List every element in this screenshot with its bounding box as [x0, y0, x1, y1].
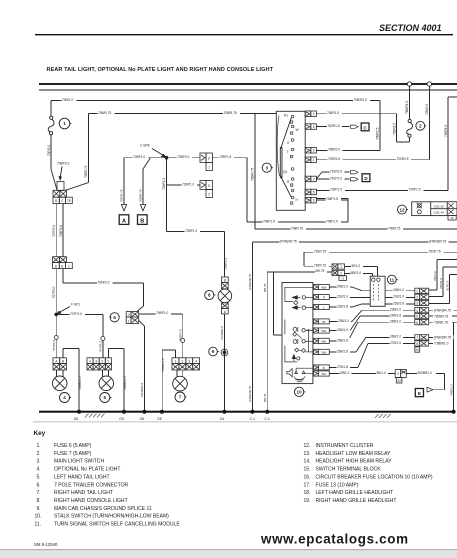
svg-text:726P1.5: 726P1.5 — [409, 188, 421, 192]
svg-text:11: 11 — [389, 277, 394, 282]
svg-text:72BP1.0: 72BP1.0 — [185, 229, 197, 233]
svg-text:15/3BR2.5: 15/3BR2.5 — [140, 382, 144, 397]
svg-text:70BP2.0: 70BP2.0 — [57, 162, 69, 166]
svg-text:14.: 14. — [304, 459, 311, 465]
svg-text:C-1: C-1 — [250, 417, 256, 421]
svg-text:BR.75: BR.75 — [316, 269, 325, 273]
svg-text:25B/1.8: 25B/1.8 — [337, 338, 348, 342]
svg-text:FUSE 13 (10 AMP): FUSE 13 (10 AMP) — [316, 482, 359, 488]
svg-text:G4: G4 — [220, 417, 225, 421]
svg-text:G5: G5 — [119, 417, 124, 421]
svg-text:www.epcatalogs.com: www.epcatalogs.com — [260, 532, 408, 547]
svg-text:9: 9 — [212, 349, 215, 354]
svg-text:16.: 16. — [304, 474, 311, 480]
svg-text:761R2.0: 761R2.0 — [330, 169, 342, 173]
svg-text:7.: 7. — [37, 490, 41, 496]
svg-text:B: B — [140, 219, 144, 225]
svg-text:26B/1.0: 26B/1.0 — [390, 335, 401, 339]
svg-text:900BR1.0: 900BR1.0 — [418, 371, 432, 375]
svg-text:Key: Key — [34, 430, 46, 437]
svg-text:1: 1 — [340, 265, 342, 269]
svg-text:31b: 31b — [321, 372, 326, 376]
svg-text:E: E — [418, 391, 421, 396]
svg-text:72BP1.5: 72BP1.5 — [444, 125, 448, 137]
svg-text:SWITCH TERMINAL BLOCK: SWITCH TERMINAL BLOCK — [316, 467, 382, 473]
svg-text:TURN SIGNAL SWITCH SELF CANCEL: TURN SIGNAL SWITCH SELF CANCELLING MODUL… — [54, 522, 180, 528]
svg-text:RIGHT HAND TAIL LIGHT: RIGHT HAND TAIL LIGHT — [54, 490, 113, 496]
svg-text:70BP1.0: 70BP1.0 — [156, 311, 168, 315]
svg-text:3CP1.0: 3CP1.0 — [445, 281, 449, 291]
svg-text:1: 1 — [107, 359, 109, 363]
svg-text:5I: 5I — [323, 366, 326, 370]
svg-text:76P#1.0: 76P#1.0 — [439, 277, 443, 289]
svg-text:(FNR)9R.75: (FNR)9R.75 — [280, 239, 297, 243]
svg-text:4: 4 — [195, 359, 197, 363]
svg-text:78: 78 — [67, 199, 71, 203]
svg-text:706P2.0: 706P2.0 — [59, 225, 63, 237]
svg-text:708R.75: 708R.75 — [291, 226, 303, 230]
svg-text:6.: 6. — [37, 482, 41, 488]
svg-text:70BR.75: 70BR.75 — [84, 165, 88, 178]
svg-text:707P1.0: 707P1.0 — [99, 340, 103, 352]
svg-text:27B/1.0: 27B/1.0 — [390, 341, 401, 345]
svg-text:7: 7 — [179, 395, 182, 400]
svg-text:5: 5 — [104, 395, 107, 400]
svg-text:2: 2 — [208, 193, 210, 197]
svg-text:72B9R.75: 72B9R.75 — [434, 314, 448, 318]
svg-text:3.: 3. — [37, 459, 41, 465]
svg-text:12: 12 — [399, 207, 405, 212]
svg-text:72B9K.75: 72B9K.75 — [434, 321, 448, 325]
svg-text:LEFT HAND GRILLE HEADLIGHT: LEFT HAND GRILLE HEADLIGHT — [316, 490, 394, 496]
svg-text:5: 5 — [313, 149, 315, 153]
svg-text:708P1.5: 708P1.5 — [326, 219, 338, 223]
svg-text:0: 0 — [128, 313, 130, 317]
svg-text:(FNR)9R.75: (FNR)9R.75 — [434, 336, 451, 340]
svg-text:Q2: Q2 — [283, 170, 287, 174]
svg-text:71: 71 — [341, 277, 345, 281]
svg-text:(FNR)9R.75: (FNR)9R.75 — [248, 385, 252, 402]
svg-text:G5: G5 — [157, 417, 162, 421]
svg-text:INSTRUMENT CLUSTER: INSTRUMENT CLUSTER — [316, 443, 374, 449]
svg-text:7 POLE TRAILER CONNECTOR: 7 POLE TRAILER CONNECTOR — [54, 482, 128, 488]
svg-text:70B/R.75: 70B/R.75 — [224, 111, 238, 115]
svg-text:25B/1.0: 25B/1.0 — [390, 320, 401, 324]
svg-text:1: 1 — [416, 290, 418, 294]
svg-text:C-SP8: C-SP8 — [140, 144, 150, 148]
svg-text:24B/1.8: 24B/1.8 — [390, 314, 401, 318]
svg-text:708P1.5: 708P1.5 — [326, 197, 338, 201]
svg-text:707P2.0: 707P2.0 — [52, 225, 56, 237]
svg-text:G5: G5 — [74, 417, 79, 421]
svg-text:11.: 11. — [35, 522, 42, 528]
svg-text:72BP2.0: 72BP2.0 — [177, 155, 189, 159]
svg-text:56b: 56b — [321, 340, 326, 344]
svg-text:72BP1.0: 72BP1.0 — [182, 182, 194, 186]
svg-text:766R2.0: 766R2.0 — [328, 148, 340, 152]
svg-text:70P1.0: 70P1.0 — [433, 271, 437, 281]
svg-text:70BBR1.0: 70BBR1.0 — [78, 376, 82, 390]
svg-text:1: 1 — [313, 158, 315, 162]
svg-text:BR.75: BR.75 — [263, 283, 267, 292]
svg-text:70BR2.5: 70BR2.5 — [376, 127, 380, 140]
svg-text:726P1.5: 726P1.5 — [330, 188, 342, 192]
svg-text:4: 4 — [89, 359, 91, 363]
svg-text:761P2.0: 761P2.0 — [330, 176, 342, 180]
svg-text:32: 32 — [397, 379, 401, 383]
svg-text:CIRCUIT BREAKER FUSE LOCATION: CIRCUIT BREAKER FUSE LOCATION 10 (10 AMP… — [316, 474, 433, 480]
svg-text:6: 6 — [313, 125, 315, 129]
svg-text:56a: 56a — [321, 329, 326, 333]
svg-text:72BP1.0: 72BP1.0 — [133, 155, 145, 159]
svg-text:(FNR)9R.75: (FNR)9R.75 — [434, 309, 451, 313]
svg-text:C-1: C-1 — [264, 417, 270, 421]
svg-text:E: E — [61, 264, 63, 268]
svg-text:4.: 4. — [37, 467, 41, 473]
svg-text:3: 3 — [95, 359, 97, 363]
svg-text:(FNR)9R.75: (FNR)9R.75 — [429, 239, 446, 243]
svg-text:2: 2 — [416, 296, 418, 300]
svg-text:2: 2 — [101, 359, 103, 363]
svg-text:G5: G5 — [140, 417, 145, 421]
svg-text:4: 4 — [63, 395, 66, 400]
svg-text:22B/1.8: 22B/1.8 — [337, 305, 348, 309]
svg-text:1: 1 — [128, 319, 130, 323]
svg-text:5.: 5. — [37, 474, 41, 480]
svg-text:760R1.5: 760R1.5 — [328, 124, 340, 128]
svg-text:762R.75: 762R.75 — [314, 264, 326, 268]
svg-text:B: B — [55, 199, 57, 203]
svg-text:21B/1.0: 21B/1.0 — [393, 295, 404, 299]
svg-text:706P2.0: 706P2.0 — [98, 280, 110, 284]
svg-text:2: 2 — [313, 177, 315, 181]
svg-text:720R2.5: 720R2.5 — [397, 157, 409, 161]
svg-text:9/B1.0: 9/B1.0 — [340, 371, 349, 375]
svg-text:1: 1 — [175, 359, 177, 363]
svg-text:6: 6 — [416, 321, 418, 325]
svg-text:74BR1.0: 74BR1.0 — [450, 384, 454, 396]
svg-text:5: 5 — [416, 315, 418, 319]
svg-text:6: 6 — [113, 315, 116, 320]
svg-text:9R1.0: 9R1.0 — [352, 264, 361, 268]
svg-text:RIGHT HAND CONSOLE LIGHT: RIGHT HAND CONSOLE LIGHT — [54, 498, 128, 504]
svg-text:B: B — [224, 279, 226, 283]
svg-text:1: 1 — [208, 166, 210, 170]
svg-text:18.: 18. — [304, 490, 311, 496]
svg-text:5: 5 — [313, 190, 315, 194]
svg-text:3: 3 — [416, 302, 418, 306]
svg-text:MAIN CAB CHASSIS GROUND SPLICE: MAIN CAB CHASSIS GROUND SPLICE 11 — [54, 506, 152, 512]
svg-text:70B/2.0: 70B/2.0 — [62, 98, 73, 102]
svg-text:MAIN LIGHT SWITCH: MAIN LIGHT SWITCH — [54, 459, 104, 465]
svg-text:2: 2 — [340, 272, 342, 276]
svg-text:707P1.0: 707P1.0 — [70, 312, 82, 316]
svg-text:9B/1.0: 9B/1.0 — [377, 371, 386, 375]
svg-text:8: 8 — [208, 293, 211, 298]
svg-text:3: 3 — [266, 165, 269, 170]
svg-text:SM 8-12540: SM 8-12540 — [34, 542, 58, 547]
svg-text:22B/1.8: 22B/1.8 — [393, 301, 404, 305]
svg-text:12.: 12. — [304, 443, 311, 449]
svg-text:FUSE 7 (5 AMP): FUSE 7 (5 AMP) — [54, 451, 92, 457]
svg-text:3: 3 — [188, 359, 190, 363]
svg-text:20B/1.0: 20B/1.0 — [337, 284, 348, 288]
svg-text:20: 20 — [415, 348, 419, 352]
svg-text:LEFT HAND TAIL LIGHT: LEFT HAND TAIL LIGHT — [54, 474, 110, 480]
svg-text:R1: R1 — [284, 113, 288, 117]
svg-text:763R1.5: 763R1.5 — [327, 111, 339, 115]
svg-text:70B/R.75: 70B/R.75 — [98, 111, 112, 115]
svg-text:15.: 15. — [304, 467, 311, 473]
svg-text:72BP1.5: 72BP1.5 — [162, 178, 166, 190]
svg-text:BR.75: BR.75 — [263, 393, 267, 402]
svg-text:26B/1.8: 26B/1.8 — [337, 349, 348, 353]
svg-text:REAR TAIL LIGHT, OPTIONAL No P: REAR TAIL LIGHT, OPTIONAL No PLATE LIGHT… — [47, 67, 274, 73]
svg-text:4: 4 — [416, 309, 418, 313]
svg-text:FUSE 6 (5 AMP): FUSE 6 (5 AMP) — [54, 443, 92, 449]
svg-text:HEADLIGHT LOW BEAM RELAY: HEADLIGHT LOW BEAM RELAY — [316, 451, 392, 457]
svg-text:76B/R1.5: 76B/R1.5 — [405, 100, 409, 114]
svg-text:19.: 19. — [304, 498, 311, 504]
svg-text:70P/2.0: 70P/2.0 — [47, 145, 51, 156]
svg-text:762R.75: 762R.75 — [429, 250, 441, 254]
svg-text:24B/1.0: 24B/1.0 — [337, 328, 348, 332]
svg-text:708P1.5: 708P1.5 — [263, 219, 275, 223]
svg-text:72B/2.5: 72B/2.5 — [425, 104, 429, 115]
svg-text:RIGHT HAND GRILLE HEADLIGHT: RIGHT HAND GRILLE HEADLIGHT — [316, 498, 397, 504]
svg-text:56: 56 — [322, 320, 326, 324]
svg-text:6BR1.0: 6BR1.0 — [351, 271, 362, 275]
svg-text:30: 30 — [450, 216, 454, 220]
svg-text:P: P — [208, 157, 210, 161]
svg-text:2.: 2. — [37, 451, 41, 457]
svg-text:70B/R.75: 70B/R.75 — [251, 167, 255, 181]
svg-text:SECTION 4001: SECTION 4001 — [379, 23, 442, 33]
svg-text:58d: 58d — [321, 351, 326, 355]
svg-text:(FNR)9R.75: (FNR)9R.75 — [248, 273, 252, 290]
svg-text:74/3BR1.0: 74/3BR1.0 — [220, 325, 224, 340]
svg-text:4: 4 — [313, 112, 315, 116]
svg-text:70BP1.0: 70BP1.0 — [178, 329, 182, 341]
svg-text:A: A — [122, 219, 126, 225]
svg-text:70BBR1.0: 70BBR1.0 — [123, 376, 127, 390]
svg-text:27B/1.8: 27B/1.8 — [337, 365, 348, 369]
svg-text:CN1-25: CN1-25 — [434, 204, 445, 208]
svg-text:707P2.0: 707P2.0 — [52, 286, 56, 298]
svg-text:70P/R.75: 70P/R.75 — [120, 189, 124, 202]
svg-text:8.: 8. — [37, 498, 41, 504]
svg-text:70B/R2.0: 70B/R2.0 — [354, 98, 368, 102]
svg-text:45a: 45a — [321, 286, 326, 290]
svg-text:T38BR1.0: T38BR1.0 — [434, 342, 449, 346]
svg-text:21B/1.0: 21B/1.0 — [337, 295, 348, 299]
svg-text:B: B — [62, 359, 64, 363]
svg-text:23B/1.0: 23B/1.0 — [390, 308, 401, 312]
svg-text:70BBR1.8: 70BBR1.8 — [161, 358, 165, 372]
svg-text:762R.75: 762R.75 — [314, 250, 326, 254]
svg-text:F-SP1: F-SP1 — [71, 303, 80, 307]
svg-text:1.: 1. — [37, 443, 41, 449]
svg-text:13.: 13. — [304, 451, 311, 457]
svg-text:23B/1.0: 23B/1.0 — [338, 319, 349, 323]
svg-text:2: 2 — [419, 124, 422, 129]
svg-text:W: W — [296, 128, 299, 132]
svg-text:1: 1 — [63, 121, 66, 126]
svg-text:6: 6 — [313, 199, 315, 203]
svg-text:10: 10 — [297, 390, 303, 395]
svg-text:OPTIONAL No PLATE LIGHT: OPTIONAL No PLATE LIGHT — [54, 467, 120, 473]
svg-text:2: 2 — [181, 359, 183, 363]
svg-text:70BR.75: 70BR.75 — [388, 226, 401, 230]
svg-text:20B/1.0: 20B/1.0 — [393, 288, 404, 292]
svg-text:72BP1.0: 72BP1.0 — [224, 258, 228, 270]
svg-text:STALK SWITCH (TURN/HORN/HIGH-L: STALK SWITCH (TURN/HORN/HIGH-LOW BEAM) — [54, 514, 169, 520]
svg-text:720R2.5: 720R2.5 — [328, 157, 340, 161]
svg-text:HEADLIGHT HIGH BEAM RELAY: HEADLIGHT HIGH BEAM RELAY — [316, 459, 393, 465]
svg-text:763R1.5: 763R1.5 — [392, 123, 396, 135]
svg-text:17.: 17. — [304, 482, 311, 488]
svg-text:2: 2 — [68, 264, 70, 268]
svg-text:70B/R.75: 70B/R.75 — [139, 189, 143, 202]
svg-text:CN1-24: CN1-24 — [434, 211, 445, 215]
svg-text:T: T — [287, 150, 289, 154]
svg-text:7: 7 — [416, 336, 418, 340]
svg-text:9: 9 — [397, 372, 399, 376]
svg-text:707P1.0: 707P1.0 — [52, 339, 56, 351]
svg-text:9.: 9. — [37, 506, 41, 512]
svg-text:10.: 10. — [35, 514, 42, 520]
svg-text:72BP1.5: 72BP1.5 — [219, 155, 231, 159]
svg-text:R: R — [323, 296, 325, 300]
svg-text:8: 8 — [416, 342, 418, 346]
